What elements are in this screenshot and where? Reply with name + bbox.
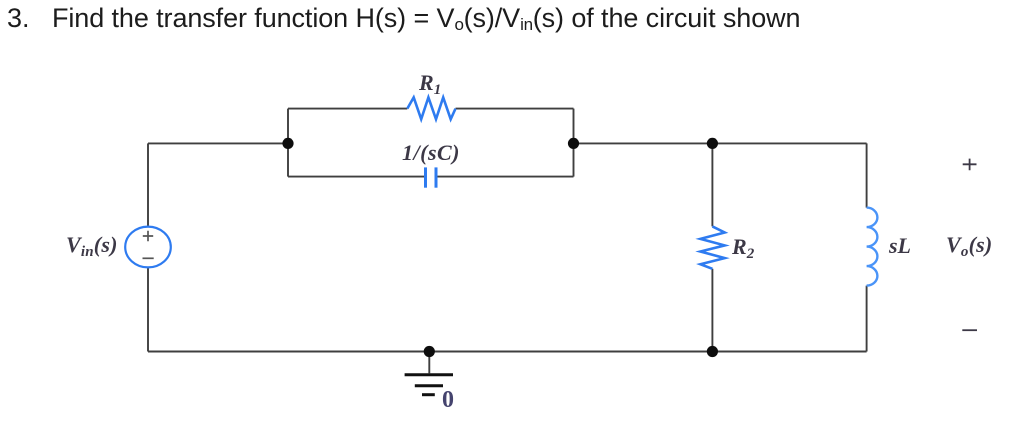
voltage source V_in(s) circle bbox=[125, 227, 171, 268]
wire: bottom horizontal bbox=[148, 351, 867, 353]
node dot: box right bbox=[568, 138, 579, 149]
svg-text:1/(sC): 1/(sC) bbox=[402, 140, 460, 165]
svg-text:Vo(s): Vo(s) bbox=[946, 232, 992, 260]
capacitor C plates bbox=[426, 167, 437, 187]
ground symbol bars bbox=[405, 375, 453, 395]
inductor sL coils bbox=[867, 208, 878, 286]
resistor R2 zigzag bbox=[700, 226, 724, 268]
node dot: R2 bottom bbox=[707, 346, 718, 357]
title bbox=[0, 2, 1024, 4]
voltage source plus sign bbox=[143, 231, 154, 258]
svg-text:R1: R1 bbox=[418, 70, 441, 98]
svg-text:Vin(s): Vin(s) bbox=[66, 232, 118, 260]
wire: left vertical bottom part bbox=[147, 268, 149, 352]
svg-text:R2: R2 bbox=[731, 234, 755, 262]
svg-text:0: 0 bbox=[442, 387, 454, 413]
wire: sL branch bottom stub bbox=[866, 286, 868, 352]
node dot: ground node bbox=[424, 346, 435, 357]
resistor R1 zigzag bbox=[407, 97, 455, 119]
wire: box bottom branch right of capacitor bbox=[436, 176, 573, 178]
node dot: R2 top bbox=[707, 138, 718, 149]
wire: top horizontal from R2 node to sL corner bbox=[712, 142, 866, 144]
output minus sign bbox=[962, 329, 977, 331]
wire: mid horizontal from box to R2 node bbox=[574, 142, 713, 144]
svg-text:sL: sL bbox=[888, 233, 911, 258]
wire: box top branch left of R1 bbox=[288, 108, 407, 110]
wire: left vertical (source branch) top part bbox=[148, 109, 867, 374]
wire: ground stub bbox=[428, 352, 430, 374]
voltage source minus sign bbox=[143, 257, 154, 259]
wire: sL branch top stub bbox=[866, 143, 868, 207]
wire: R2 branch bottom stub bbox=[711, 269, 713, 352]
node dot: box left bbox=[282, 138, 293, 149]
wire: R2 branch top stub bbox=[711, 143, 713, 226]
wire: box top branch right of R1 bbox=[456, 108, 574, 110]
output plus sign bbox=[962, 159, 977, 331]
wire: box left vertical bbox=[287, 109, 289, 177]
wire: top horizontal from source to box left node bbox=[148, 142, 288, 144]
wire: box right vertical bbox=[573, 109, 575, 177]
wire: box bottom branch left of capacitor bbox=[288, 176, 425, 178]
label R1 bbox=[66, 70, 992, 413]
